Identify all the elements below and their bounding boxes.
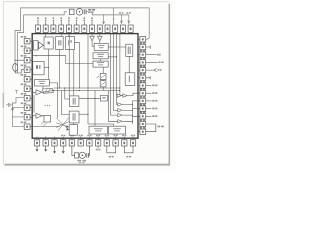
bus H1 (54, 87, 120, 89)
wire net1 drop to pin T11 (113, 8, 115, 24)
label pin R6 (139, 73, 142, 75)
fan arrowheads (66, 128, 69, 130)
wire divider C down to shift reg I (73, 50, 75, 96)
pin T11 (top) (113, 25, 118, 32)
bus slash marks (41, 122, 47, 127)
block VREF (125, 73, 135, 86)
pin T7 (top) (82, 25, 87, 32)
driver buffer pair row 1 (117, 94, 121, 97)
wire U2 diagonal to bus dot (42, 90, 54, 92)
label pin L3 (21, 55, 24, 57)
pin T9 (top) (97, 25, 102, 32)
wire Y1 top branch to pin L3 (15, 59, 24, 61)
label pin R3 (139, 50, 142, 52)
pin R9 (right) (140, 98, 146, 103)
stub R9 label (146, 100, 152, 102)
block port driver K (89, 126, 107, 134)
small cap near L6 (15, 90, 18, 93)
wire bus into shift reg J (62, 91, 70, 115)
wire drop to pin T9 area (103, 15, 105, 24)
pin R13 (right) (140, 129, 146, 134)
pin B6 (bottom) (78, 140, 83, 146)
chain vertical (132, 101, 134, 125)
wire stub into chip B7 (88, 137, 90, 140)
pin T12 (top) (120, 25, 125, 32)
wire net2 (osc loop): oval bottom, around left, to crystal X1 (18, 12, 68, 73)
pin B11 (bottom) (122, 140, 127, 146)
junction dots (59, 87, 60, 88)
pin L10 (left) (24, 124, 30, 129)
pin R12 (right) (140, 121, 146, 126)
label pin B6 inside (79, 135, 81, 137)
pin R10 (right) (140, 106, 146, 111)
label pin L2 (21, 46, 24, 48)
wire F to TR (108, 46, 125, 48)
latch block on I output (100, 95, 107, 101)
wire stub into chip B3 (54, 137, 56, 140)
crystal X1 (76, 9, 83, 16)
block logic F (94, 43, 108, 50)
tiny supply labels (119, 12, 121, 13)
wire stub pin T2 (45, 22, 47, 25)
inverter V2 (pin T9) (98, 36, 103, 41)
wire+arrow below B1 (36, 146, 38, 149)
label pin B12 inside (131, 135, 133, 137)
label pin T3 (53, 17, 55, 19)
pin L2 (left) (24, 48, 30, 53)
driver buffer row 4 (118, 113, 122, 116)
pin L5 (left) (24, 77, 30, 82)
wire shift reg J to OSC3 (72, 123, 74, 125)
stub R4 with dashes (146, 61, 158, 63)
pin B12 (bottom) (130, 140, 135, 146)
wire stub pin T6 (76, 22, 78, 25)
pin T10 (top) (105, 25, 110, 32)
pin B7 (bottom) (87, 140, 92, 146)
label pin R8 (139, 88, 142, 90)
wire stub into chip B10 (115, 137, 117, 140)
wire cap chain (102, 80, 104, 91)
capacitor C4 (87, 153, 89, 158)
label pin T5 (68, 17, 70, 19)
wire stub pin T5 (68, 22, 70, 25)
stub R7 label (146, 85, 152, 87)
bus H2 (54, 90, 120, 92)
wire rows to chain vertical (122, 104, 132, 121)
label pin B9 inside (105, 135, 107, 137)
wire left col vertical (33, 95, 35, 113)
block freq divider E (35, 79, 50, 86)
pin R6 (right) (140, 75, 146, 80)
wire+arrow below B4 (62, 146, 64, 151)
wire net1 (VSS ring): oval top, around page top, to pin R1 (15, 8, 149, 64)
label pin T6 (76, 17, 78, 19)
wire port L up and left (88, 124, 113, 126)
wire T7 long down (87, 34, 89, 124)
pin L3 (left) (24, 58, 30, 63)
label pin L8 (21, 103, 24, 105)
crystal X2 (79, 152, 85, 158)
capacitor C3 (75, 153, 79, 158)
wire stub into chip B5 (71, 137, 73, 140)
value label X1 (88, 9, 91, 11)
wire stub into chip B4 (62, 137, 64, 140)
capacitor C2 (84, 9, 86, 14)
stub R11 label (146, 115, 152, 117)
block booster G (93, 53, 108, 59)
block OSC2 (33, 61, 44, 74)
label pin T1 (37, 17, 39, 19)
label pin B4 inside (61, 135, 63, 137)
wire stub pin T1 (37, 22, 39, 25)
label pin T2 (45, 17, 47, 19)
driver buffer row 3 (118, 109, 122, 112)
inverter V1 (pin T8) (90, 36, 95, 41)
wire T5 down to shift reg I (68, 34, 70, 96)
wire stubs T4,T5 into blocks B,C (61, 34, 69, 37)
wire stub pin T4 (60, 22, 62, 25)
wire feed row5 (108, 91, 117, 122)
driver buffer row 5 (118, 120, 122, 123)
wire bus into shift reg I (65, 88, 70, 99)
wire U-loop bottom pin pair (107, 146, 116, 153)
wire latch to row5 feed (107, 97, 110, 99)
wire loop R12-R13 (146, 124, 156, 132)
pin L4 (left) (24, 67, 30, 72)
wire divider B down to bus (59, 50, 61, 89)
junction dot on horizontal (108, 56, 116, 58)
wire stub into chip B8 (97, 137, 99, 140)
wire H down to cap boxes (102, 67, 104, 73)
wire E down into mux (42, 86, 44, 89)
pin T5 (top) (66, 25, 71, 32)
wire osc amp to divider A (42, 44, 45, 46)
latch cell (44, 115, 51, 122)
pin B8 (bottom) (95, 140, 100, 146)
wire branches L8 L9 (13, 107, 25, 117)
pin B10 (bottom) (113, 140, 118, 146)
wire stub pin T3 (52, 22, 54, 25)
label pin B10 inside (114, 135, 116, 137)
buffer U2 (36, 90, 42, 95)
wire G to H (99, 59, 101, 61)
label pin R5 (139, 65, 142, 67)
block contrast H (93, 61, 108, 67)
pin R11 (right) (140, 114, 146, 119)
label pin B7 inside (87, 135, 89, 137)
wire drop to pin T13 (128, 15, 130, 24)
fan diagonal lines (56, 118, 69, 131)
pin T1 (top) (36, 25, 41, 32)
pin L8 (left) (24, 105, 30, 110)
wire stubs left pins to chip edge (30, 41, 32, 127)
pin R4 (right) (140, 60, 146, 65)
block shift reg J (69, 111, 79, 123)
label pin R13 (139, 127, 142, 129)
wire shift reg I output right (79, 97, 101, 99)
pin T2 (top) (43, 25, 48, 32)
wire stub into chip B1 (36, 137, 38, 140)
pin T4 (top) (59, 25, 64, 32)
wire stub pin T8 (91, 22, 93, 25)
label pin L4 (21, 65, 24, 67)
pin T8 (top) (90, 25, 95, 32)
block OSC3 (69, 125, 77, 136)
pin T6 (top) (74, 25, 79, 32)
wire branch L7 (13, 97, 25, 103)
pin R2 (right) (140, 44, 146, 49)
block divider B (56, 37, 64, 50)
pin B2 (bottom) (43, 140, 48, 146)
wire stub T2 into block A (45, 34, 47, 37)
pin R5 (right) (140, 67, 146, 72)
wire TR down to VREF (128, 56, 130, 73)
margin vertical text (3, 93, 5, 108)
wire stub into chip B6 (80, 137, 82, 140)
wire OSC2 out right (44, 67, 49, 69)
wire B7 to crystal X2 (88, 146, 89, 155)
block shift reg I (70, 96, 79, 107)
label pin B5 inside (70, 135, 72, 137)
junction dots on net2 (121, 14, 122, 15)
label pin L1 (21, 36, 24, 38)
divider cap box (100, 73, 106, 79)
driver buffer row 2 (118, 103, 122, 106)
wire U-loop bottom pin pair (124, 146, 133, 153)
divider cap box (100, 81, 106, 87)
pin L7 (left) (24, 96, 30, 101)
label pin R12 (139, 119, 142, 121)
IC U1 package outline (32, 34, 138, 139)
stub R3 with mark (146, 54, 157, 56)
label pin T8 (91, 17, 93, 19)
arrow terminal left net (11, 108, 14, 111)
wire stub into chip B11 (123, 137, 125, 140)
stub R5 with Y mark (146, 68, 157, 72)
label pin T4 (60, 17, 62, 19)
label pin R9 (139, 96, 142, 98)
wire drop to pin T12 (120, 15, 122, 24)
block port driver L (109, 126, 126, 134)
pin L1 (left) (24, 39, 30, 44)
label pin B8 inside (96, 135, 98, 137)
stub R10 label (146, 108, 152, 110)
wire B5 to crystal X2 (72, 146, 75, 155)
mux selector (42, 88, 53, 93)
label pin L6 (21, 84, 24, 86)
wire stub pin T7 (83, 22, 85, 25)
wire stub into chip B2 (45, 137, 47, 140)
label pin R2 (139, 42, 142, 44)
wire port K up to bus (94, 91, 96, 127)
wire stub into chip B9 (106, 137, 108, 140)
wire shift reg J output right (79, 113, 88, 115)
pin L6 (left) (24, 86, 30, 91)
wire left net L10 around (13, 103, 25, 126)
wire E to fan vertical (49, 83, 57, 118)
label pin L9 (21, 112, 24, 114)
ellipsis dots (45, 105, 46, 106)
label pin L10 (21, 122, 24, 124)
label U-loop (109, 156, 111, 158)
wire divider A down to block E (48, 49, 50, 79)
label pin B11 inside (122, 135, 124, 137)
capacitor on left net (6, 103, 12, 107)
label pin T7 (84, 17, 86, 19)
block divider A (44, 37, 53, 49)
label below B8 (97, 146, 99, 148)
wire stub into chip B12 (132, 137, 134, 140)
label pin L7 (21, 93, 24, 95)
pin B5 (bottom) (69, 140, 74, 146)
buffer amp triangle (39, 42, 44, 49)
wire T9 pin to inverter V2 and block F (99, 34, 101, 44)
wire block C right out (75, 43, 80, 88)
block divider TR (126, 44, 133, 56)
label pin R4 (139, 58, 142, 60)
stub R2 with tick (146, 45, 151, 48)
wire T8 pin to inverter V1 (92, 34, 94, 47)
label pin R10 (139, 104, 142, 106)
wire+arrow below B3 (54, 146, 56, 151)
wire stubs right pins to chip edge (138, 39, 140, 131)
pin B3 (bottom) (52, 140, 57, 146)
oscillator Y1 (left oval) (13, 64, 18, 72)
pin R7 (right) (140, 83, 146, 88)
arrow into pin R1 (146, 38, 149, 39)
wire pins to buffers U2 U3 (32, 92, 44, 116)
value label X2 (77, 160, 81, 162)
squiggle tick left of cap boxes (97, 76, 100, 78)
pin L9 (left) (24, 115, 30, 120)
wire row1 to pin R8 (127, 93, 139, 95)
label pin R7 (139, 81, 142, 83)
pin B1 (bottom) (34, 140, 39, 146)
label pin R11 (139, 112, 142, 114)
pin T13 (top) (128, 25, 133, 32)
pin B4 (bottom) (61, 140, 66, 146)
wires chain to right pins (133, 101, 140, 116)
pin T3 (top) (51, 25, 56, 32)
buffer U3 (36, 113, 42, 118)
wire verticals from top pins right (111, 34, 118, 116)
stub R8 label (146, 92, 152, 94)
wire horizontal y55.7 with corner (32, 56, 93, 64)
wire pin L10 into chip (32, 125, 60, 127)
stub R6 tick (146, 76, 151, 79)
block divider C (66, 37, 75, 50)
label U-loop (126, 156, 128, 158)
wire net2 right of crystal to top pins (86, 12, 129, 15)
pin R8 (right) (140, 91, 146, 96)
osc amp cell (34, 41, 38, 50)
wire Y1 bottom branch to pin L4 (15, 70, 24, 73)
pin R3 (right) (140, 52, 146, 57)
pin B9 (bottom) (104, 140, 109, 146)
wire+arrow below B2 (45, 146, 47, 149)
pin R1 (right) (140, 37, 146, 42)
label pin L5 (21, 74, 24, 76)
capacitor C1 (69, 9, 74, 14)
